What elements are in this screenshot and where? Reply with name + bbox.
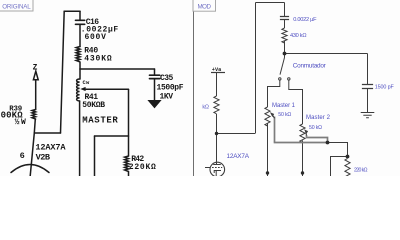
- svg-text:Master 1: Master 1: [272, 103, 296, 109]
- svg-text:50 kΩ: 50 kΩ: [278, 112, 291, 118]
- node dot plate junction: [215, 132, 218, 135]
- potentiometer Master 1 body: [265, 107, 270, 126]
- potentiometer R41 (coil body): [77, 79, 80, 101]
- wire node2 left branch: [331, 157, 348, 177]
- Master1 wiper arrow: [270, 112, 274, 117]
- resistor R40: [76, 47, 80, 70]
- MOD label box: [193, 0, 216, 11]
- wire C16 to R40: [79, 24, 81, 46]
- node plate junction / wire to C35: [80, 68, 155, 70]
- wire Master2 bottom: [302, 141, 304, 177]
- wire down to R42: [128, 90, 130, 157]
- wire dot1 to R220: [328, 143, 348, 157]
- ground IEC: [361, 113, 375, 118]
- wire wiper to right: [85, 88, 129, 90]
- tube plate: [213, 162, 221, 165]
- potentiometer Master 2 body: [300, 124, 305, 142]
- resistor 430k: [282, 28, 287, 43]
- ground (filled triangle): [149, 101, 160, 108]
- power terminal +Va bar: [211, 72, 225, 74]
- resistor R42: [125, 156, 129, 176]
- svg-text:12AX7A: 12AX7A: [227, 153, 250, 160]
- wire branch down: [94, 136, 96, 176]
- wire left contact elbow: [268, 80, 280, 107]
- capacitor C35: [150, 75, 160, 78]
- Master2 wiper arrow: [304, 129, 308, 134]
- wire node to 1500pF: [285, 53, 368, 55]
- wire left rail: [61, 11, 65, 133]
- wiper wires (grey, thicker): [274, 117, 328, 143]
- svg-text:+Va: +Va: [212, 67, 222, 73]
- wire left rail up: [255, 3, 257, 134]
- capacitor 1500pF: [362, 85, 373, 89]
- wire top: [256, 2, 285, 4]
- resistor R39: [32, 110, 36, 120]
- wire node to left rail: [217, 133, 256, 135]
- ORIGINAL label box: [0, 0, 33, 11]
- wire Master2 wiper elbow: [307, 135, 328, 143]
- wire +Va down: [216, 73, 218, 97]
- wire resistor to node: [284, 41, 286, 54]
- svg-text:Conmutador: Conmutador: [293, 63, 327, 70]
- svg-text:ORIGINAL: ORIGINAL: [2, 4, 31, 11]
- svg-text:1KV: 1KV: [160, 93, 174, 102]
- wire Master1 wiper down: [274, 117, 276, 143]
- node dot1 wiper bus: [326, 141, 330, 145]
- switch lever: [280, 58, 285, 75]
- node dot2 220k top: [346, 155, 350, 159]
- svg-text:220 kΩ: 220 kΩ: [354, 168, 368, 174]
- svg-text:220KΩ: 220KΩ: [129, 163, 156, 172]
- wire cap stub: [284, 3, 286, 17]
- node dot switch pole: [283, 52, 287, 56]
- capacitor C16: [76, 20, 85, 24]
- switch pole stub: [284, 54, 286, 58]
- wire cap to resistor: [284, 20, 286, 29]
- node dot Master1 bottom: [266, 171, 269, 174]
- switch contact left: [279, 78, 281, 80]
- wire C16 top stub: [79, 11, 81, 20]
- wire cap to ground: [367, 89, 369, 113]
- svg-text:Cw: Cw: [83, 80, 91, 86]
- svg-text:430KΩ: 430KΩ: [84, 55, 112, 64]
- svg-text:Z: Z: [33, 63, 38, 72]
- svg-text:600V: 600V: [85, 33, 107, 42]
- svg-text:MOD: MOD: [198, 4, 212, 11]
- svg-text:50KΩB: 50KΩB: [82, 101, 105, 110]
- wire top: [64, 10, 80, 12]
- tube V2B envelope arc: [11, 165, 49, 173]
- svg-text:1500 pF: 1500 pF: [375, 84, 395, 90]
- wire Master1 bottom: [267, 123, 269, 176]
- R41 wiper arrow: [81, 88, 85, 91]
- svg-text:MASTER: MASTER: [82, 115, 118, 125]
- pane divider: [193, 0, 195, 176]
- svg-text:50 kΩ: 50 kΩ: [309, 125, 322, 131]
- svg-text:430 kΩ: 430 kΩ: [290, 33, 307, 39]
- wire Z to R39: [35, 80, 37, 110]
- wire 1500pF stub: [367, 54, 369, 85]
- wire to right riser: [34, 132, 60, 134]
- svg-text:V2B: V2B: [36, 152, 50, 162]
- wire grid lead of V2B: [30, 133, 34, 176]
- svg-text:6: 6: [20, 151, 25, 161]
- svg-text:½ W: ½ W: [15, 118, 26, 127]
- svg-text:Master 2: Master 2: [306, 115, 331, 121]
- svg-text:C35: C35: [160, 74, 173, 83]
- node Z (off page arrow): [33, 71, 38, 80]
- node dot Master2 bottom: [301, 171, 304, 174]
- wire right contact elbow: [289, 80, 303, 124]
- svg-text:0.0022 µF: 0.0022 µF: [293, 17, 317, 23]
- svg-text:1500pF: 1500pF: [157, 84, 184, 93]
- wire R39 bottom: [34, 119, 35, 133]
- svg-text:12AX7A: 12AX7A: [35, 142, 66, 152]
- wire C35 to ground: [154, 79, 156, 101]
- wire resistor to tube plate: [216, 114, 218, 162]
- svg-text:kΩ: kΩ: [202, 105, 209, 111]
- tube cathode: [214, 171, 221, 177]
- wire wiper bus: [274, 142, 328, 144]
- resistor grid kohm: [214, 96, 219, 114]
- wire branch horizontal: [95, 135, 129, 137]
- capacitor 0.0022uF: [280, 17, 289, 20]
- wire junction to pot: [79, 69, 81, 79]
- switch contact right: [288, 78, 290, 80]
- resistor 220k: [345, 159, 350, 179]
- wire C35 stub: [154, 69, 156, 75]
- wire pot bottom down: [79, 101, 81, 176]
- tube grid (dashed) + lead: [205, 167, 210, 169]
- tube 12AX7A envelope: [210, 162, 225, 177]
